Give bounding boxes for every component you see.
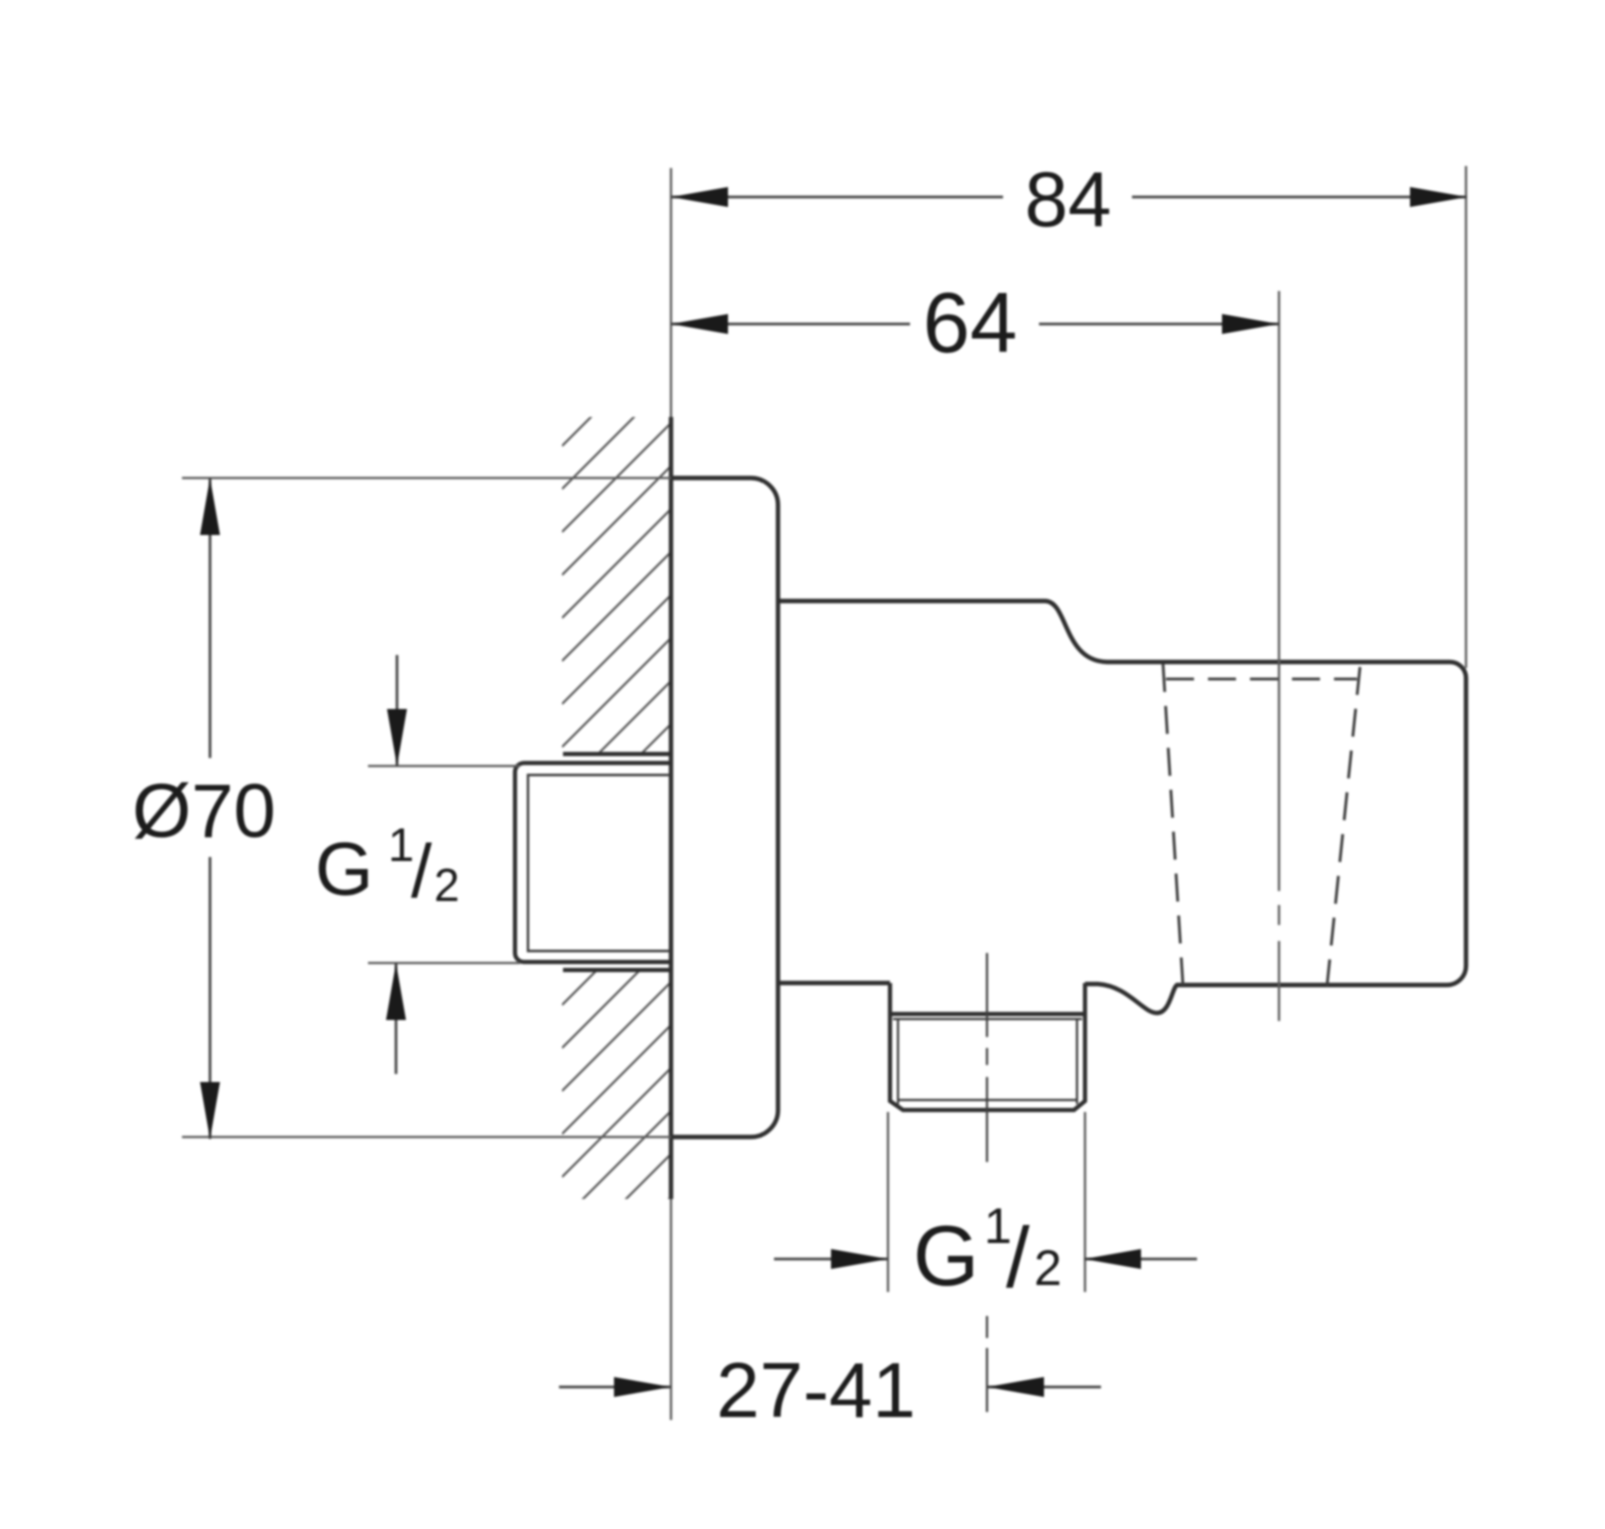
- inlet G1/2 extension top: [368, 765, 520, 767]
- outlet centerline: [986, 953, 988, 1412]
- outlet G1/2 extension right: [1084, 1112, 1086, 1292]
- holder cone dashed top edge: [1166, 678, 1357, 681]
- outlet G1/2 left arrow: [774, 1258, 888, 1261]
- svg-text:G: G: [913, 1209, 979, 1304]
- body and holder outline: [778, 601, 1466, 1013]
- inlet G1/2 extension bottom: [368, 962, 520, 964]
- holder cone dashed left edge: [1163, 664, 1183, 986]
- label G1/2 inlet: [315, 818, 460, 913]
- outlet G1/2 right arrow: [1084, 1258, 1197, 1261]
- svg-text:27-41: 27-41: [716, 1346, 916, 1434]
- outlet nipple inner thread left: [897, 1019, 899, 1104]
- inlet nipple outer outline: [515, 763, 671, 962]
- svg-text:Ø70: Ø70: [132, 769, 276, 854]
- hatch stop line below inlet: [563, 968, 671, 972]
- wall face extension line bottom: [670, 1199, 672, 1420]
- dimension line O70: [209, 478, 212, 758]
- outlet nipple thread line below collar: [893, 1018, 1082, 1020]
- svg-text:G: G: [315, 827, 373, 911]
- svg-text:2: 2: [434, 859, 460, 911]
- outlet nipple inner thread right: [1076, 1019, 1078, 1104]
- wall face line: [669, 417, 673, 1199]
- inlet nipple inner thread line: [528, 775, 671, 951]
- dimension O70 extension bottom: [182, 1136, 671, 1138]
- body bottom edge left segment: [778, 981, 890, 985]
- svg-text:/: /: [411, 829, 432, 913]
- dimension line 84: [671, 196, 1003, 199]
- dimension 64 extension / cone centerline: [1278, 291, 1280, 1021]
- outlet nipple outer outline: [890, 983, 1085, 1110]
- wall face extension line top: [670, 168, 672, 417]
- outlet nipple collar line: [890, 1012, 1085, 1016]
- dimension O70 extension top: [182, 477, 671, 479]
- inlet G1/2 bottom arrow: [395, 963, 398, 1074]
- dimension 27-41 right arrow: [987, 1386, 1101, 1389]
- svg-text:64: 64: [923, 276, 1018, 371]
- outlet G1/2 extension left: [887, 1112, 889, 1292]
- wall hatching: [562, 250, 672, 1306]
- outlet nipple inner thread bottom: [898, 1099, 1077, 1101]
- svg-text:2: 2: [1034, 1240, 1062, 1296]
- svg-text:/: /: [1006, 1211, 1030, 1306]
- svg-text:84: 84: [1025, 155, 1112, 243]
- holder cone dashed right edge: [1327, 667, 1360, 986]
- dimension 84 extension line right: [1465, 166, 1467, 668]
- label G1/2 outlet: [913, 1198, 1062, 1306]
- dimension 27-41 left arrow: [559, 1386, 671, 1389]
- dimension line 64: [671, 323, 910, 326]
- escutcheon flange outline: [671, 478, 778, 1137]
- hatch stop line above inlet: [563, 752, 671, 756]
- inlet G1/2 top arrow: [396, 655, 399, 766]
